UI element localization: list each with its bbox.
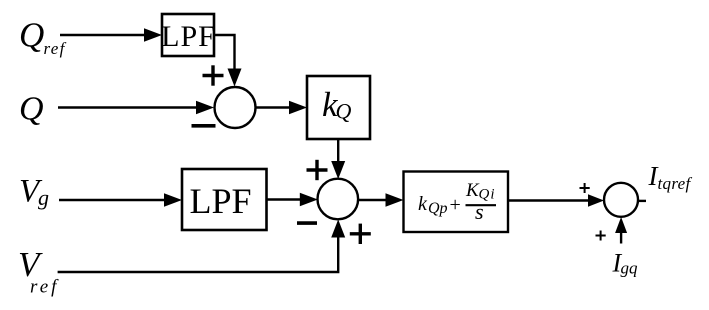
svg-text:Qp: Qp <box>428 200 448 217</box>
plus sign bottom-right of S2 <box>350 224 371 244</box>
svg-text:gq: gq <box>621 259 639 278</box>
block PI kQp+KQi/s <box>404 172 509 233</box>
svg-text:+: + <box>450 194 461 216</box>
minus sign at S2 <box>297 221 317 225</box>
block kQ <box>307 76 370 139</box>
wire S1 to kQ <box>256 106 292 108</box>
svg-text:LPF: LPF <box>161 20 216 53</box>
svg-text:g: g <box>38 185 49 210</box>
wire LPF2 to S2 <box>267 198 303 200</box>
svg-text:k: k <box>418 193 428 215</box>
wire Qref to LPF1 <box>60 34 146 36</box>
node Qref label <box>19 16 67 59</box>
minus sign at S1 <box>192 124 216 128</box>
plus sign above S2 <box>307 160 328 180</box>
wire kQ to summing junction S2 <box>337 139 339 163</box>
wire Vref to S2 (bottom entry) <box>58 236 339 272</box>
svg-text:tqref: tqref <box>658 174 693 193</box>
svg-text:ref: ref <box>30 277 59 298</box>
svg-text:LPF: LPF <box>189 181 251 221</box>
summing junction S1 <box>215 87 256 128</box>
svg-text:Q: Q <box>19 91 44 128</box>
block LPF2 <box>182 169 267 230</box>
svg-text:s: s <box>475 199 484 224</box>
svg-text:ref: ref <box>44 39 67 58</box>
wire S2 to PI block <box>358 199 387 201</box>
node Igq label <box>612 249 639 278</box>
block LPF1 <box>161 14 216 56</box>
small plus sign left-above S3 <box>580 183 590 193</box>
node Vref label <box>18 245 59 298</box>
plus sign at S1 <box>203 65 224 85</box>
output stub right of S3 <box>638 200 646 202</box>
svg-text:Q: Q <box>19 16 44 55</box>
wire Vg to LPF2 <box>59 199 166 201</box>
wire Q to S1 <box>58 106 198 108</box>
node Vg label <box>19 174 49 211</box>
svg-text:Q: Q <box>336 99 352 124</box>
small plus sign left-below S3 <box>596 231 606 241</box>
wire Igq into S3 (bottom entry) <box>620 233 622 244</box>
summing junction S3 <box>604 183 638 217</box>
wire LPF1 to summing junction S1 <box>213 35 235 70</box>
wire PI to summing junction S3 <box>508 199 590 201</box>
summing junction S2 <box>318 179 359 220</box>
node Itqref label <box>648 161 693 193</box>
